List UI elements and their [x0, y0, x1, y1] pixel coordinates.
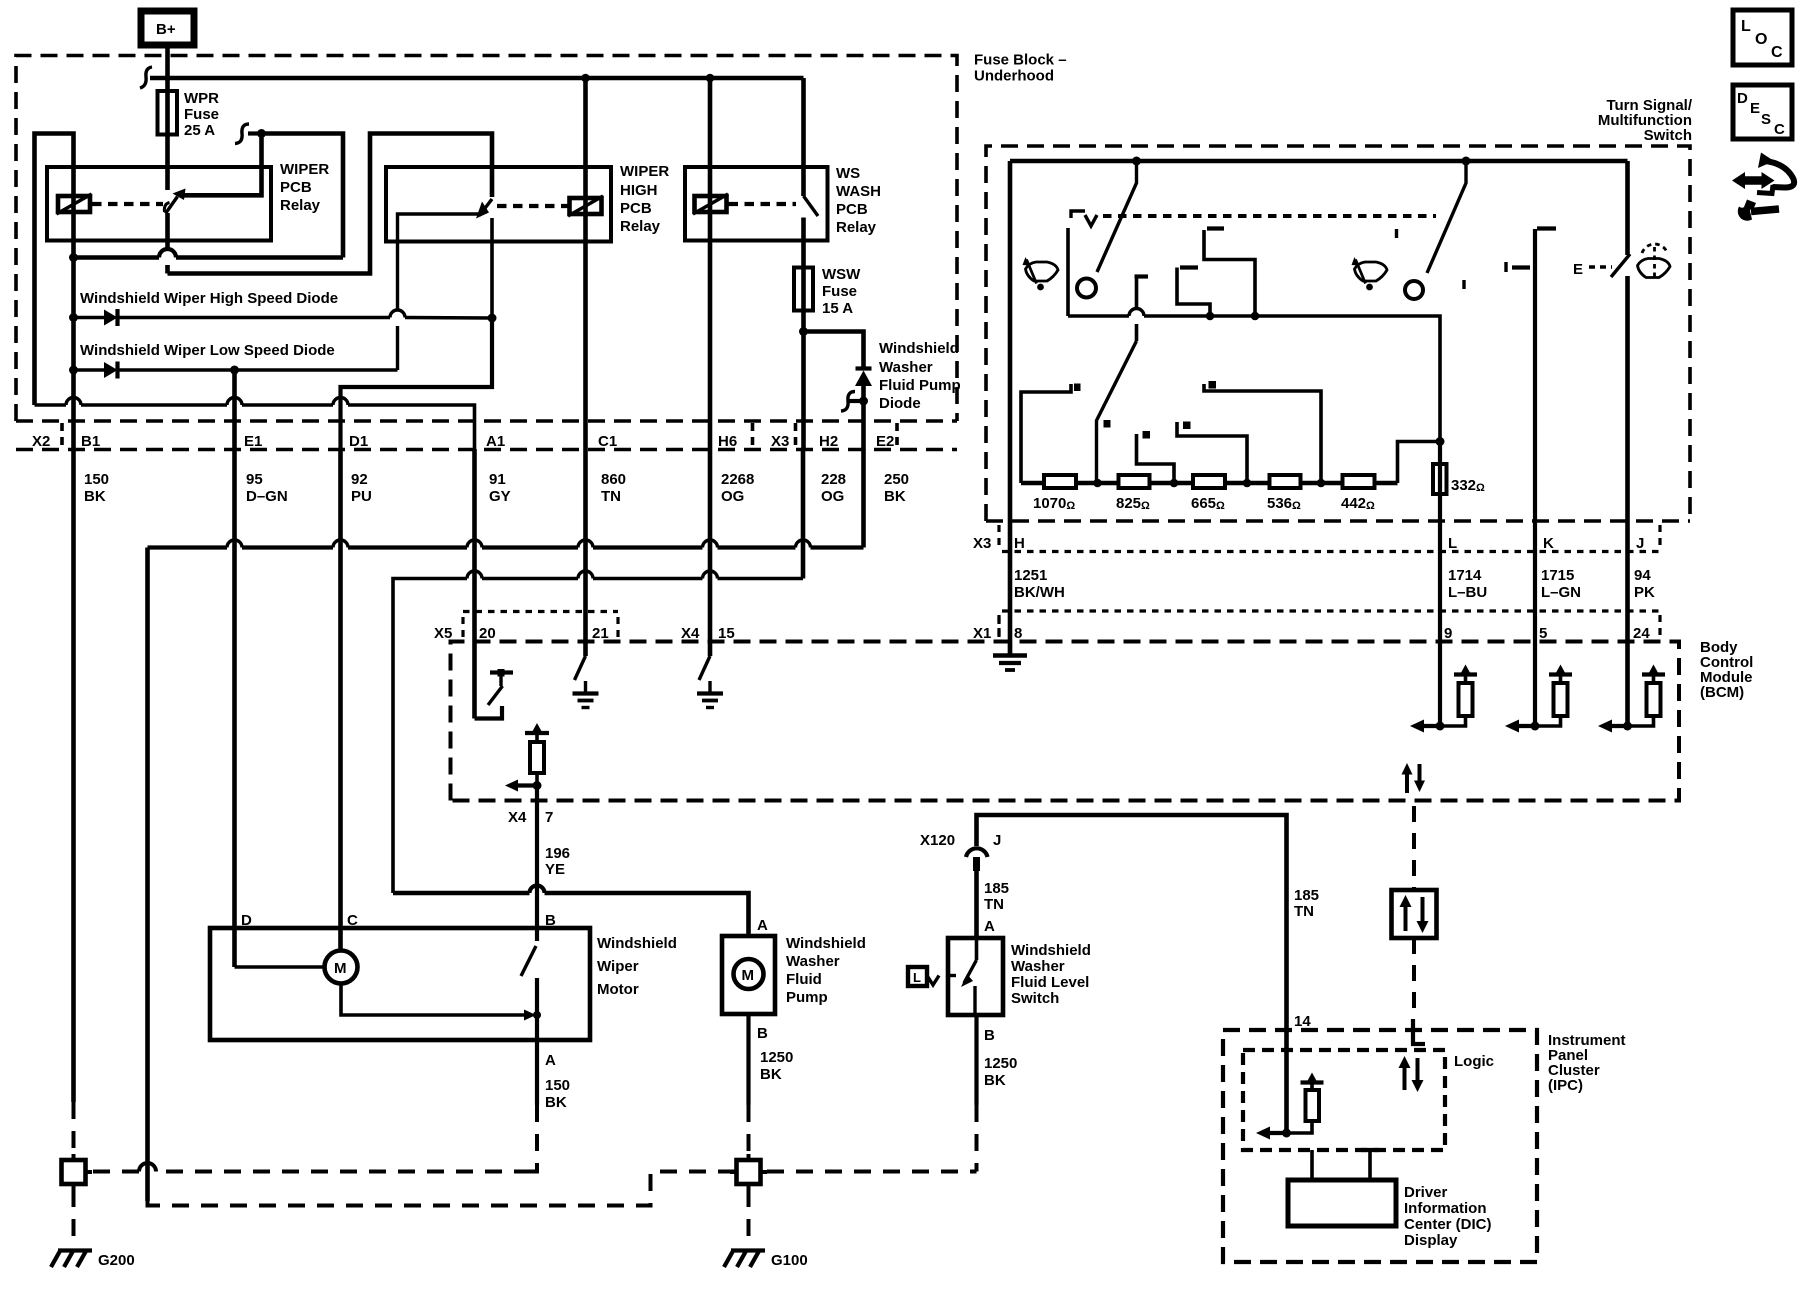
- svg-text:1715: 1715: [1541, 567, 1574, 584]
- wire B1 dashed to G200: [72, 1102, 76, 1154]
- wire E2 below row: [861, 449, 866, 548]
- svg-text:Washer: Washer: [1011, 958, 1065, 975]
- routing wire1 E2 ground link: [148, 545, 864, 549]
- X4-7 pullup resistor: [525, 723, 549, 786]
- svg-text:Driver: Driver: [1404, 1184, 1448, 1201]
- svg-text:BK: BK: [84, 488, 106, 505]
- svg-text:Washer: Washer: [786, 953, 840, 970]
- X2 row separators: [62, 423, 897, 448]
- relay WIPER HIGH label: [620, 163, 669, 235]
- svg-text:Relay: Relay: [620, 218, 661, 235]
- svg-text:X5: X5: [434, 625, 452, 642]
- svg-text:B1: B1: [81, 433, 100, 450]
- svg-text:OG: OG: [721, 488, 744, 505]
- svg-text:E2: E2: [876, 433, 894, 450]
- svg-text:Diode: Diode: [879, 395, 921, 412]
- logic serial arrows: [1399, 1056, 1424, 1092]
- blade2 column contact: [1135, 277, 1149, 342]
- svg-text:(IPC): (IPC): [1548, 1077, 1583, 1094]
- WPR fuse label: [184, 90, 219, 139]
- wire level switch B down: [974, 1015, 978, 1105]
- BCM pullup L: [1410, 665, 1477, 733]
- branch contact D left: [1021, 384, 1081, 484]
- svg-text:185: 185: [1294, 887, 1319, 904]
- svg-text:H6: H6: [718, 433, 737, 450]
- relay1 coil dashed link: [92, 202, 163, 206]
- wire B+ down to fuse: [165, 45, 170, 91]
- svg-text:92: 92: [351, 471, 368, 488]
- svg-text:PK: PK: [1634, 584, 1655, 601]
- svg-text:X120: X120: [920, 832, 955, 849]
- svg-text:G200: G200: [98, 1252, 135, 1269]
- svg-text:OG: OG: [821, 488, 844, 505]
- svg-text:WASH: WASH: [836, 183, 881, 200]
- switch frame left wire H: [1008, 161, 1013, 655]
- BCM serial wire dashed: [1412, 806, 1416, 890]
- washer pump label: [786, 935, 866, 1006]
- svg-text:A: A: [984, 918, 995, 935]
- svg-text:E: E: [1573, 261, 1583, 278]
- hop A1 line over E1: [227, 398, 242, 405]
- svg-text:Relay: Relay: [280, 197, 321, 214]
- X3 connector row top dashed: [986, 519, 1690, 523]
- junction dot X4-7: [533, 781, 542, 790]
- double arrow icon: [1732, 172, 1775, 189]
- svg-text:WSW: WSW: [822, 266, 861, 283]
- IPC dashed box: [1223, 1030, 1537, 1262]
- svg-text:Information: Information: [1404, 1200, 1487, 1217]
- DIC display box: [1288, 1180, 1396, 1226]
- svg-text:X1: X1: [973, 625, 991, 642]
- curl at B+ feed line start: [140, 67, 152, 88]
- svg-text:1250: 1250: [760, 1049, 793, 1066]
- BCM pullup K: [1505, 665, 1572, 733]
- svg-text:J: J: [993, 832, 1001, 849]
- module dashed box BCM row: [451, 642, 1680, 801]
- svg-text:95: 95: [246, 471, 263, 488]
- svg-text:Logic: Logic: [1454, 1053, 1494, 1070]
- ladder resistor 442: [1343, 475, 1375, 488]
- X120 labels: [920, 832, 1009, 935]
- X1 row labels: [1444, 625, 1650, 642]
- ladder resistor 825: [1119, 475, 1150, 488]
- level switch blade: [961, 938, 977, 1015]
- junction dot coil1 bottom: [69, 253, 78, 262]
- svg-text:150: 150: [545, 1077, 570, 1094]
- junction dot low speed diode left: [69, 366, 78, 375]
- junction dot 185TN logic: [1282, 1129, 1291, 1138]
- svg-text:1250: 1250: [984, 1055, 1017, 1072]
- junction dot blade2: [1462, 157, 1471, 166]
- svg-text:Fluid: Fluid: [786, 971, 822, 988]
- motor D wire inside: [235, 965, 325, 969]
- wire diode to E2: [861, 386, 866, 450]
- svg-text:9: 9: [1444, 625, 1452, 642]
- junction dot motor switch: [533, 1011, 541, 1019]
- branch to 825: [1137, 431, 1175, 483]
- svg-text:24: 24: [1633, 625, 1650, 642]
- svg-text:BK/WH: BK/WH: [1014, 584, 1065, 601]
- washer fluid pump diode: [855, 369, 872, 387]
- svg-text:Motor: Motor: [597, 981, 639, 998]
- trunk to ground bus2: [148, 1172, 737, 1206]
- relay1 coil: [57, 194, 92, 214]
- BCM label: [1700, 639, 1753, 701]
- wire A1 coil control line with hops: [35, 405, 475, 450]
- motor armature to switch: [341, 984, 528, 1016]
- hop switch wire over blade2 column: [1129, 309, 1144, 317]
- svg-text:D: D: [1737, 90, 1748, 107]
- mist contact symbol: [1071, 211, 1097, 226]
- svg-text:1251: 1251: [1014, 567, 1047, 584]
- LOC reference box: [1733, 10, 1792, 65]
- svg-text:Windshield: Windshield: [1011, 942, 1091, 959]
- ground bus right of G100: [767, 1170, 977, 1174]
- wire motor A dashed to ground bus: [531, 1105, 537, 1172]
- wire A1 below row to park switch: [472, 449, 477, 719]
- wire relay1 common down: [165, 213, 170, 274]
- X1 connector row dotted: [1002, 609, 1663, 612]
- svg-text:Windshield: Windshield: [597, 935, 677, 952]
- svg-text:Display: Display: [1404, 1232, 1458, 1249]
- svg-text:(BCM): (BCM): [1700, 684, 1744, 701]
- wire circuit labels row: [84, 471, 909, 505]
- blade2 lower tick: [1462, 280, 1465, 289]
- wire B1 below row: [71, 449, 76, 1102]
- branch to 536: [1204, 381, 1321, 483]
- wire fuse to relay1 switch contact: [165, 135, 170, 191]
- svg-text:TN: TN: [1294, 903, 1314, 920]
- wire motor B feed to washer pump A: [393, 893, 749, 936]
- BCM serial direction arrows: [1402, 763, 1426, 793]
- svg-text:BK: BK: [545, 1094, 567, 1111]
- resistor value labels: [1033, 495, 1375, 512]
- X4-7 arrow: [505, 780, 537, 792]
- wire WSW fuse to H2: [801, 311, 806, 451]
- relay1 pin stub with curl: [235, 124, 262, 144]
- serial entry into logic: [1413, 1019, 1425, 1044]
- ladder resistor 665: [1193, 475, 1225, 488]
- svg-text:Center (DIC): Center (DIC): [1404, 1216, 1492, 1233]
- wire washer pump B dashed: [747, 1105, 751, 1159]
- svg-text:PU: PU: [351, 488, 372, 505]
- washer diode label: [879, 340, 961, 412]
- wire E1 below row to motor D: [232, 449, 237, 967]
- high speed diode symbol: [104, 309, 118, 326]
- wire J lower: [1625, 276, 1630, 726]
- wiper icon right: [1352, 257, 1388, 290]
- level switch B labels: [984, 1027, 1017, 1089]
- wire relay2 switch common down: [490, 218, 494, 318]
- relay1 thick path bottom edge with hop: [74, 255, 344, 260]
- relay WIPER HIGH body box: [386, 167, 611, 242]
- svg-text:L: L: [1448, 535, 1457, 552]
- wire B+ feed bus y=78: [150, 76, 804, 81]
- ladder junction dots: [1093, 479, 1325, 488]
- wire diode branch: [804, 332, 864, 370]
- svg-text:250: 250: [884, 471, 909, 488]
- svg-text:H: H: [1014, 535, 1025, 552]
- relay2 coil dashed link: [497, 204, 570, 208]
- svg-text:Windshield Wiper Low Speed Dio: Windshield Wiper Low Speed Diode: [80, 342, 335, 359]
- wire H6 vertical: [708, 78, 713, 656]
- svg-text:91: 91: [489, 471, 506, 488]
- junction dot branch B: [1206, 312, 1215, 321]
- WPR fuse 25A: [158, 91, 178, 135]
- svg-text:C: C: [347, 912, 358, 929]
- K top contact tick: [1537, 226, 1556, 230]
- svg-text:L–GN: L–GN: [1541, 584, 1581, 601]
- svg-text:Wiper: Wiper: [597, 958, 639, 975]
- G100 splice box: [730, 1154, 767, 1190]
- switch dashed detent line: [1103, 214, 1436, 218]
- svg-text:Fluid Level: Fluid Level: [1011, 974, 1089, 991]
- svg-text:21: 21: [592, 625, 609, 642]
- relay2 coil: [568, 196, 603, 216]
- svg-text:1714: 1714: [1448, 567, 1482, 584]
- relay1 blade pivot curl: [164, 203, 169, 213]
- WSW fuse 15A: [794, 268, 813, 311]
- relay3 coil: [693, 194, 728, 214]
- resistor ladder bus: [1021, 481, 1398, 485]
- svg-text:E: E: [1750, 100, 1760, 117]
- relay3 switch wire down to fuse: [801, 218, 806, 268]
- junction dot washer diode branch: [799, 327, 808, 336]
- ground switch at X5-21: [573, 656, 599, 708]
- svg-text:HIGH: HIGH: [620, 182, 658, 199]
- junction dot high speed diode left: [69, 313, 78, 322]
- X3 row separators: [999, 525, 1660, 548]
- svg-text:C1: C1: [598, 433, 617, 450]
- svg-text:Fuse: Fuse: [822, 283, 857, 300]
- wire level switch B dashed down: [975, 1105, 979, 1172]
- IPC label: [1548, 1032, 1626, 1094]
- level switch feed wire: [974, 862, 979, 938]
- motor switch blade: [521, 946, 536, 976]
- svg-text:M: M: [742, 967, 755, 984]
- ladder resistor 1070: [1044, 475, 1076, 488]
- svg-text:D1: D1: [349, 433, 368, 450]
- contact circle1: [1077, 279, 1096, 298]
- wiper icon left: [1023, 257, 1059, 290]
- K lower contact mark: [1506, 262, 1530, 272]
- relay WIPER PCB body box: [47, 167, 271, 241]
- svg-text:Windshield Wiper High Speed Di: Windshield Wiper High Speed Diode: [80, 290, 338, 307]
- switch blade2: [1427, 161, 1466, 273]
- relay1 NO contact arrowhead: [173, 189, 186, 201]
- 185 TN label mid: [1294, 887, 1319, 920]
- serial data box: [1392, 890, 1437, 938]
- junction dot 332 node: [1436, 437, 1445, 446]
- G200 dashed down: [72, 1190, 76, 1247]
- detent line end tick: [1395, 229, 1398, 238]
- motor switch arrowhead: [524, 1010, 536, 1021]
- svg-text:Fuse: Fuse: [184, 106, 219, 123]
- X2 row pin labels: [32, 433, 894, 450]
- svg-text:O: O: [1755, 31, 1767, 48]
- svg-text:5: 5: [1539, 625, 1547, 642]
- junction dot H6 tap: [706, 74, 715, 83]
- svg-text:A: A: [757, 917, 768, 934]
- relay WS WASH body box: [685, 167, 828, 241]
- wire relay2 to D1: [341, 318, 493, 450]
- G200 ground symbol: [51, 1251, 92, 1268]
- hops routing wire2: [467, 571, 718, 578]
- DIC label: [1404, 1184, 1492, 1249]
- windshield wiper low speed diode wire: [74, 368, 398, 371]
- resistor 332: [1433, 442, 1485, 727]
- motor A wire labels: [545, 1077, 570, 1111]
- bus right end up to 332 node: [1398, 442, 1441, 484]
- junction dot low speed diode E1: [230, 366, 239, 375]
- DESC reference box: [1733, 85, 1792, 139]
- wash switch dashes: [1589, 265, 1612, 269]
- wire D1 below row to motor C: [338, 449, 343, 951]
- svg-text:TN: TN: [601, 488, 621, 505]
- svg-text:D: D: [241, 912, 252, 929]
- svg-text:D–GN: D–GN: [246, 488, 288, 505]
- wash wipe icon dashed: [1638, 244, 1671, 278]
- ground switch at X4-15: [697, 656, 723, 708]
- svg-text:Underhood: Underhood: [974, 68, 1054, 85]
- relay1 junction dot top: [257, 129, 266, 138]
- relay1 NO contact wire: [183, 134, 262, 196]
- svg-text:Washer: Washer: [879, 359, 933, 376]
- X1 row separators: [999, 615, 1660, 638]
- svg-text:196: 196: [545, 845, 570, 862]
- switch blade1: [1097, 161, 1137, 272]
- svg-text:L: L: [913, 970, 921, 985]
- level switch label: [1011, 942, 1091, 1007]
- svg-text:Fuse Block –: Fuse Block –: [974, 52, 1067, 69]
- hop ground bus over trunk: [139, 1163, 156, 1172]
- switch frame top wire: [1010, 159, 1628, 164]
- turn signal multifunction switch dashed box: [986, 146, 1690, 521]
- hop over wire x167: [159, 249, 176, 258]
- svg-text:25 A: 25 A: [184, 122, 215, 139]
- G100 dashed down: [747, 1190, 751, 1247]
- wire E1 from low speed diode down: [232, 370, 237, 450]
- park switch at X5-20: [475, 669, 514, 719]
- svg-text:X4: X4: [508, 809, 527, 826]
- svg-text:228: 228: [821, 471, 846, 488]
- svg-text:C: C: [1774, 121, 1785, 138]
- low speed diode symbol: [104, 362, 118, 379]
- X3 row labels: [973, 535, 1644, 552]
- svg-text:M: M: [334, 960, 347, 977]
- svg-text:J: J: [1636, 535, 1644, 552]
- svg-text:X3: X3: [973, 535, 991, 552]
- wire H2 below row: [801, 449, 806, 579]
- svg-text:E1: E1: [244, 433, 262, 450]
- svg-text:L: L: [1741, 18, 1751, 35]
- WSW fuse label: [822, 266, 861, 317]
- DIC stub left: [1310, 1150, 1314, 1180]
- junction dot high speed diode right: [488, 314, 497, 323]
- wire washer pump B: [746, 1014, 750, 1105]
- svg-text:15 A: 15 A: [822, 300, 853, 317]
- svg-text:Fluid Pump: Fluid Pump: [879, 377, 961, 394]
- branch contact C: [1204, 229, 1255, 317]
- relay2 blade arrowhead: [476, 202, 489, 219]
- svg-text:WIPER: WIPER: [620, 163, 669, 180]
- relay3 feed wire from B+ bus: [801, 78, 806, 196]
- svg-text:185: 185: [984, 880, 1009, 897]
- hop A1 line over B1: [66, 398, 81, 405]
- svg-text:PCB: PCB: [836, 201, 868, 218]
- wire motor A out: [535, 978, 539, 1105]
- fuse block label: [974, 52, 1067, 85]
- svg-text:Relay: Relay: [836, 219, 877, 236]
- svg-text:B: B: [545, 912, 556, 929]
- washer pump M circle: [734, 959, 764, 989]
- svg-text:7: 7: [545, 809, 553, 826]
- svg-text:Windshield: Windshield: [786, 935, 866, 952]
- hops routing wire1: [227, 540, 811, 548]
- svg-text:BK: BK: [984, 1072, 1006, 1089]
- G200 splice box: [62, 1154, 93, 1190]
- relay2 NO wire continue below hop: [396, 326, 399, 370]
- svg-text:YE: YE: [545, 861, 565, 878]
- svg-text:GY: GY: [489, 488, 511, 505]
- junction dot C1 tap: [581, 74, 590, 83]
- svg-text:BK: BK: [760, 1066, 782, 1083]
- svg-text:WPR: WPR: [184, 90, 219, 107]
- relay2 switch blade: [480, 199, 493, 216]
- svg-text:PCB: PCB: [280, 179, 312, 196]
- diode pin stub with curl: [841, 392, 864, 412]
- wiper motor label: [597, 935, 677, 998]
- wiper motor box: [210, 928, 590, 1040]
- wire relay2 feed loop: [168, 134, 493, 274]
- ladder resistor 536: [1270, 475, 1301, 488]
- svg-text:20: 20: [479, 625, 496, 642]
- hop pump feed over 196YE: [530, 886, 545, 893]
- resistor selector blade: [1097, 341, 1137, 483]
- junction dot diode stub: [859, 397, 868, 406]
- serial wire to IPC: [1412, 938, 1416, 1019]
- svg-text:Pump: Pump: [786, 989, 828, 1006]
- svg-text:X2: X2: [32, 433, 50, 450]
- svg-text:PCB: PCB: [620, 200, 652, 217]
- wire coil1 bottom to B1: [71, 258, 76, 451]
- X3 row bottom dotted: [1002, 550, 1663, 553]
- washer fluid level switch box: [948, 938, 1003, 1015]
- relay1 switch blade: [166, 197, 178, 214]
- stalk icon: [1757, 153, 1794, 194]
- X2 connector row dashed lines: [16, 421, 957, 450]
- serial box arrows: [1400, 895, 1429, 933]
- X4-7 labels: [508, 809, 570, 878]
- junction dot branch C: [1251, 312, 1260, 321]
- svg-text:Switch: Switch: [1644, 127, 1692, 144]
- hop diode1 over x397: [390, 310, 405, 317]
- B+ terminal: [141, 11, 194, 45]
- svg-text:S: S: [1761, 111, 1771, 128]
- X3 wire labels: [1014, 567, 1655, 601]
- svg-text:860: 860: [601, 471, 626, 488]
- svg-text:BK: BK: [884, 488, 906, 505]
- ground bus G200 dashed: [91, 1170, 531, 1174]
- svg-text:G100: G100: [771, 1252, 808, 1269]
- svg-text:K: K: [1543, 535, 1554, 552]
- level sensor L box: [908, 967, 956, 986]
- contact circle2: [1405, 281, 1423, 299]
- DIC stub right: [1361, 1150, 1379, 1180]
- svg-text:TN: TN: [984, 896, 1004, 913]
- G100 ground symbol: [724, 1251, 765, 1268]
- svg-text:15: 15: [718, 625, 735, 642]
